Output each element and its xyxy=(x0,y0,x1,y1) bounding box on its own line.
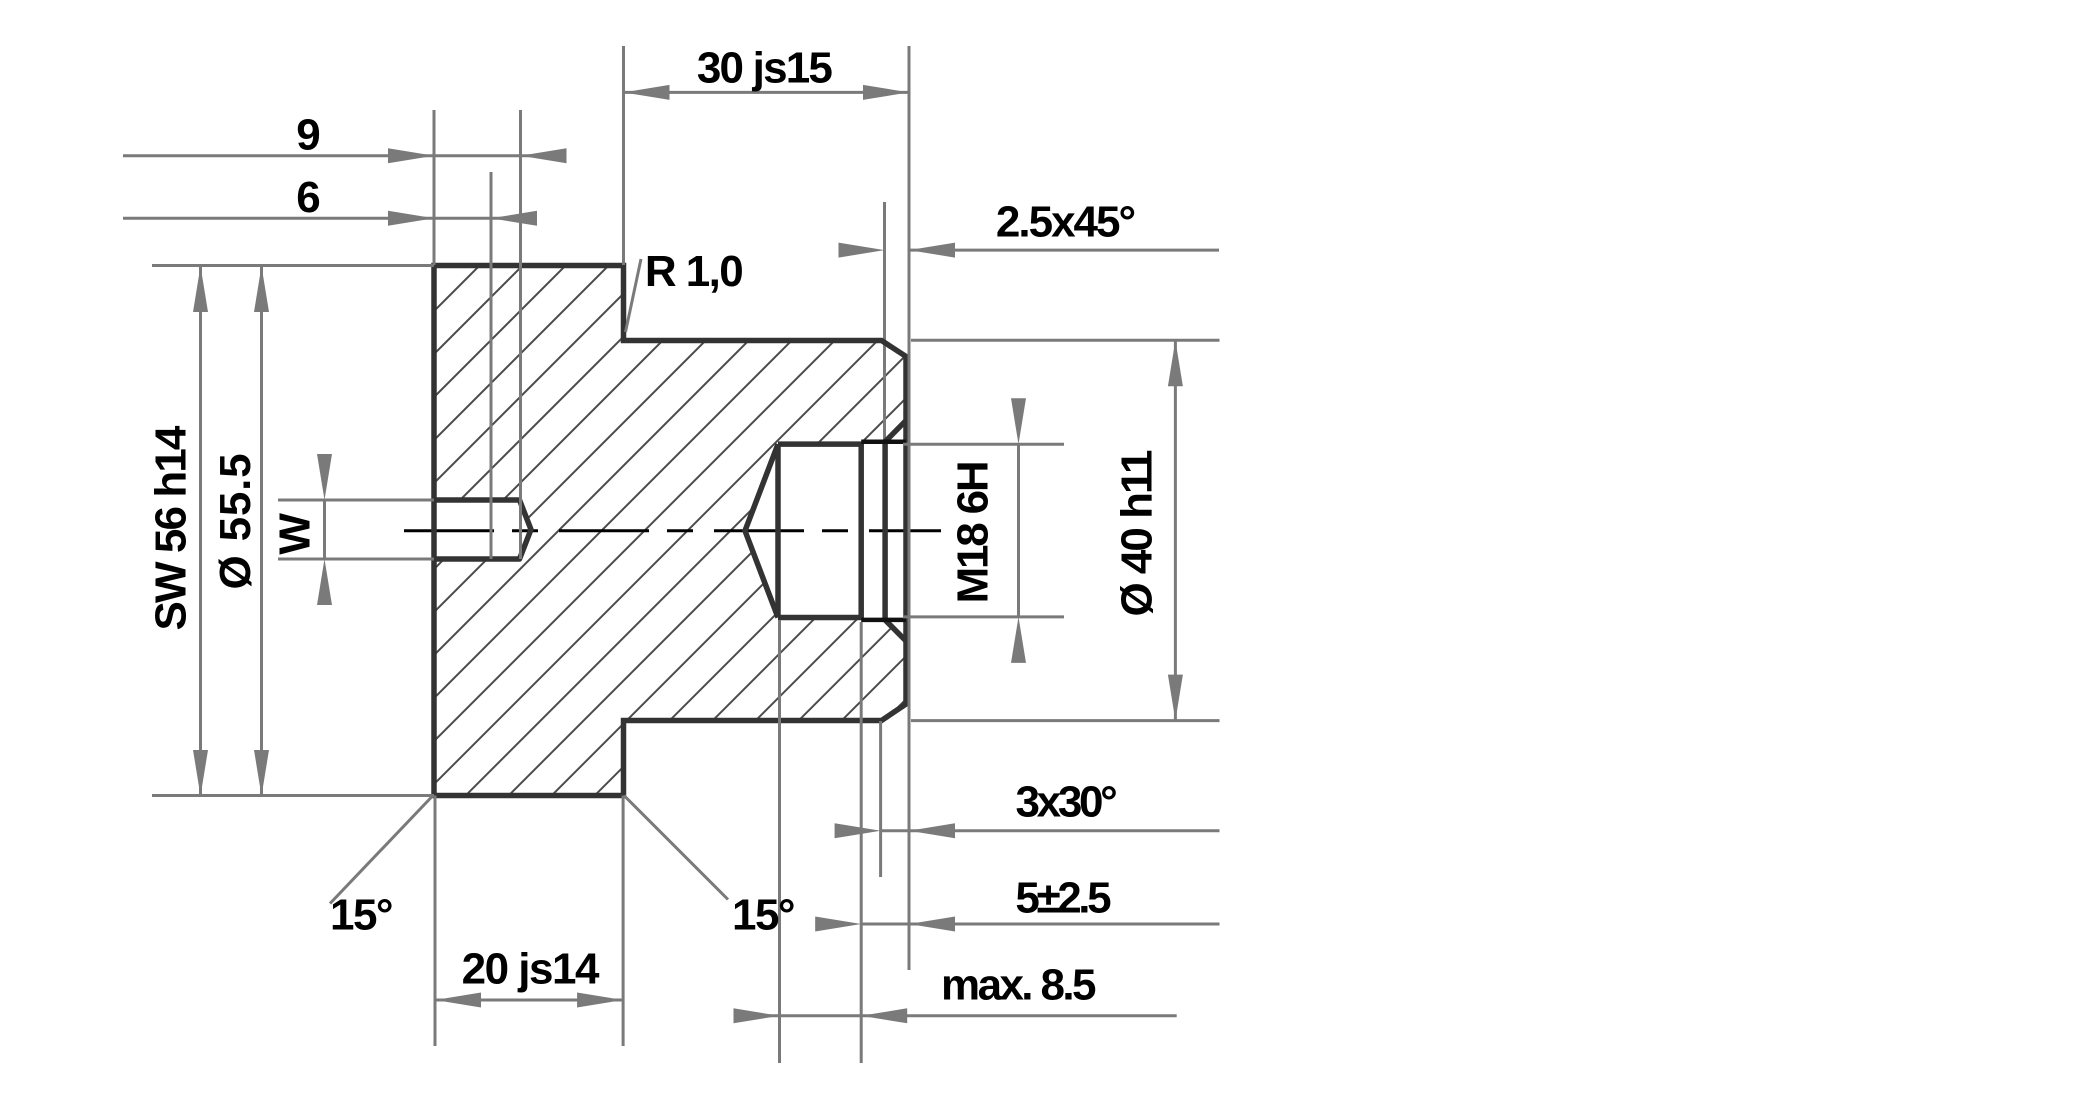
15deg leader right xyxy=(624,796,728,900)
ext lines 9 / 6 xyxy=(433,110,436,265)
svg-text:max. 8.5: max. 8.5 xyxy=(941,960,1096,1009)
SW arrows xyxy=(193,266,208,312)
5+-2.5 dim line xyxy=(861,923,1219,926)
svg-text:SW 56 h14: SW 56 h14 xyxy=(146,425,195,630)
chamfer start circle edge xyxy=(882,442,888,620)
3x30 dim line xyxy=(881,829,1220,832)
5+-2.5 arrows xyxy=(815,917,861,932)
svg-text:M18 6H: M18 6H xyxy=(948,463,997,604)
centerline xyxy=(404,529,941,532)
20 js14 dim line xyxy=(435,999,623,1002)
dim line 9 xyxy=(123,154,566,157)
ext lines 30 js15 xyxy=(622,46,625,265)
svg-text:W: W xyxy=(270,513,319,555)
max 8.5 dim line xyxy=(734,1014,1177,1017)
3x30 ext line xyxy=(879,721,882,877)
arrowheads xyxy=(193,85,1183,1023)
9 arrows xyxy=(388,148,434,163)
hatched material cross-section xyxy=(434,266,906,796)
svg-text:Ø 40 h11: Ø 40 h11 xyxy=(1113,450,1162,617)
M18 dim line xyxy=(1017,444,1020,617)
svg-text:9: 9 xyxy=(296,110,320,159)
3x30 arrows xyxy=(835,823,881,838)
max 8.5 ext line xyxy=(778,620,781,1063)
SW dim line xyxy=(199,266,202,796)
SW / dia 55.5 ext lines xyxy=(152,264,434,267)
W dim line xyxy=(323,500,326,559)
max 8.5 arrows xyxy=(734,1008,780,1023)
svg-text:R 1,0: R 1,0 xyxy=(645,247,742,296)
30 js15 arrows xyxy=(624,85,670,100)
M18 arrows xyxy=(1011,398,1026,444)
W arrows xyxy=(317,454,332,500)
svg-text:2.5x45°: 2.5x45° xyxy=(996,197,1135,246)
svg-text:20 js14: 20 js14 xyxy=(462,945,600,994)
5+-2.5 ext line xyxy=(860,622,863,1063)
svg-text:5±2.5: 5±2.5 xyxy=(1015,874,1111,923)
svg-text:30 js15: 30 js15 xyxy=(697,44,833,93)
W ext lines xyxy=(278,499,434,502)
opening chamfer top xyxy=(885,421,906,442)
counterbore lines (darker) xyxy=(861,442,906,620)
dim line 30 js15 xyxy=(624,91,910,94)
leader R 1,0 xyxy=(626,259,642,332)
full thread end circle edge at cone xyxy=(775,444,781,617)
dim line 6 xyxy=(123,217,536,220)
weep hole W xyxy=(434,500,531,559)
ext+dim 2.5x45 xyxy=(909,249,1219,252)
svg-text:15°: 15° xyxy=(330,891,392,940)
20 js14 arrows xyxy=(435,993,481,1008)
svg-text:3x30°: 3x30° xyxy=(1016,777,1117,826)
ext line 2.5x45 (under part lines) xyxy=(883,202,886,441)
drill cone xyxy=(745,444,778,617)
20 js14 ext lines xyxy=(434,796,437,1047)
6 arrows xyxy=(388,211,434,226)
svg-text:Ø 55.5: Ø 55.5 xyxy=(211,453,260,590)
svg-text:15°: 15° xyxy=(732,891,794,940)
dia 40 ext lines xyxy=(911,339,1220,342)
dia 40 arrows xyxy=(1168,340,1183,386)
dia 55.5 arrows xyxy=(254,266,269,312)
opening chamfer bottom xyxy=(885,620,906,641)
thread minor lines xyxy=(778,441,861,447)
M18 ext lines xyxy=(903,443,1064,446)
svg-text:6: 6 xyxy=(296,173,320,222)
threaded bore outline xyxy=(745,421,906,642)
dia 55.5 dim line xyxy=(260,266,263,796)
dia 40 dim line xyxy=(1174,340,1177,720)
thread end circle edge xyxy=(858,442,864,620)
2.5x45 arrows xyxy=(839,243,885,258)
part outline xyxy=(434,266,906,796)
15deg leader left xyxy=(330,796,433,904)
